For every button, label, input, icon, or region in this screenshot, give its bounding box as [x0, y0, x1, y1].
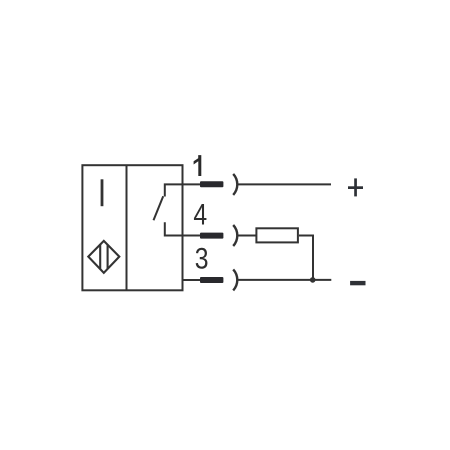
- wire 4 to load: [238, 235, 256, 237]
- proximity sensor diamond: [88, 241, 119, 273]
- connector pin 4 (black bar): [200, 233, 223, 239]
- wire from resistor: [299, 236, 313, 280]
- pin label 1: [194, 155, 202, 176]
- load resistor: [256, 228, 298, 242]
- svg-text:3: 3: [195, 242, 209, 276]
- pin label 3: [195, 242, 209, 276]
- sensor body divider: [126, 165, 128, 290]
- connector pin 1 (black bar): [200, 181, 223, 187]
- plus symbol: [348, 178, 363, 196]
- switch contact (NO): [154, 184, 201, 235]
- socket arc 3: [233, 269, 237, 290]
- connector pin 3 (black bar): [200, 277, 223, 283]
- minus symbol: [350, 281, 365, 285]
- svg-text:4: 4: [193, 197, 207, 231]
- pin label 4: [193, 197, 207, 231]
- junction dot: [310, 277, 316, 283]
- sensor body outline: [82, 165, 182, 290]
- sensor active face bar: [101, 179, 104, 206]
- socket arc 4: [233, 225, 237, 246]
- wire 3 to minus: [238, 279, 331, 281]
- socket arc 1: [233, 174, 237, 195]
- wire pin 3: [183, 279, 201, 281]
- wire 1 to plus: [238, 183, 331, 185]
